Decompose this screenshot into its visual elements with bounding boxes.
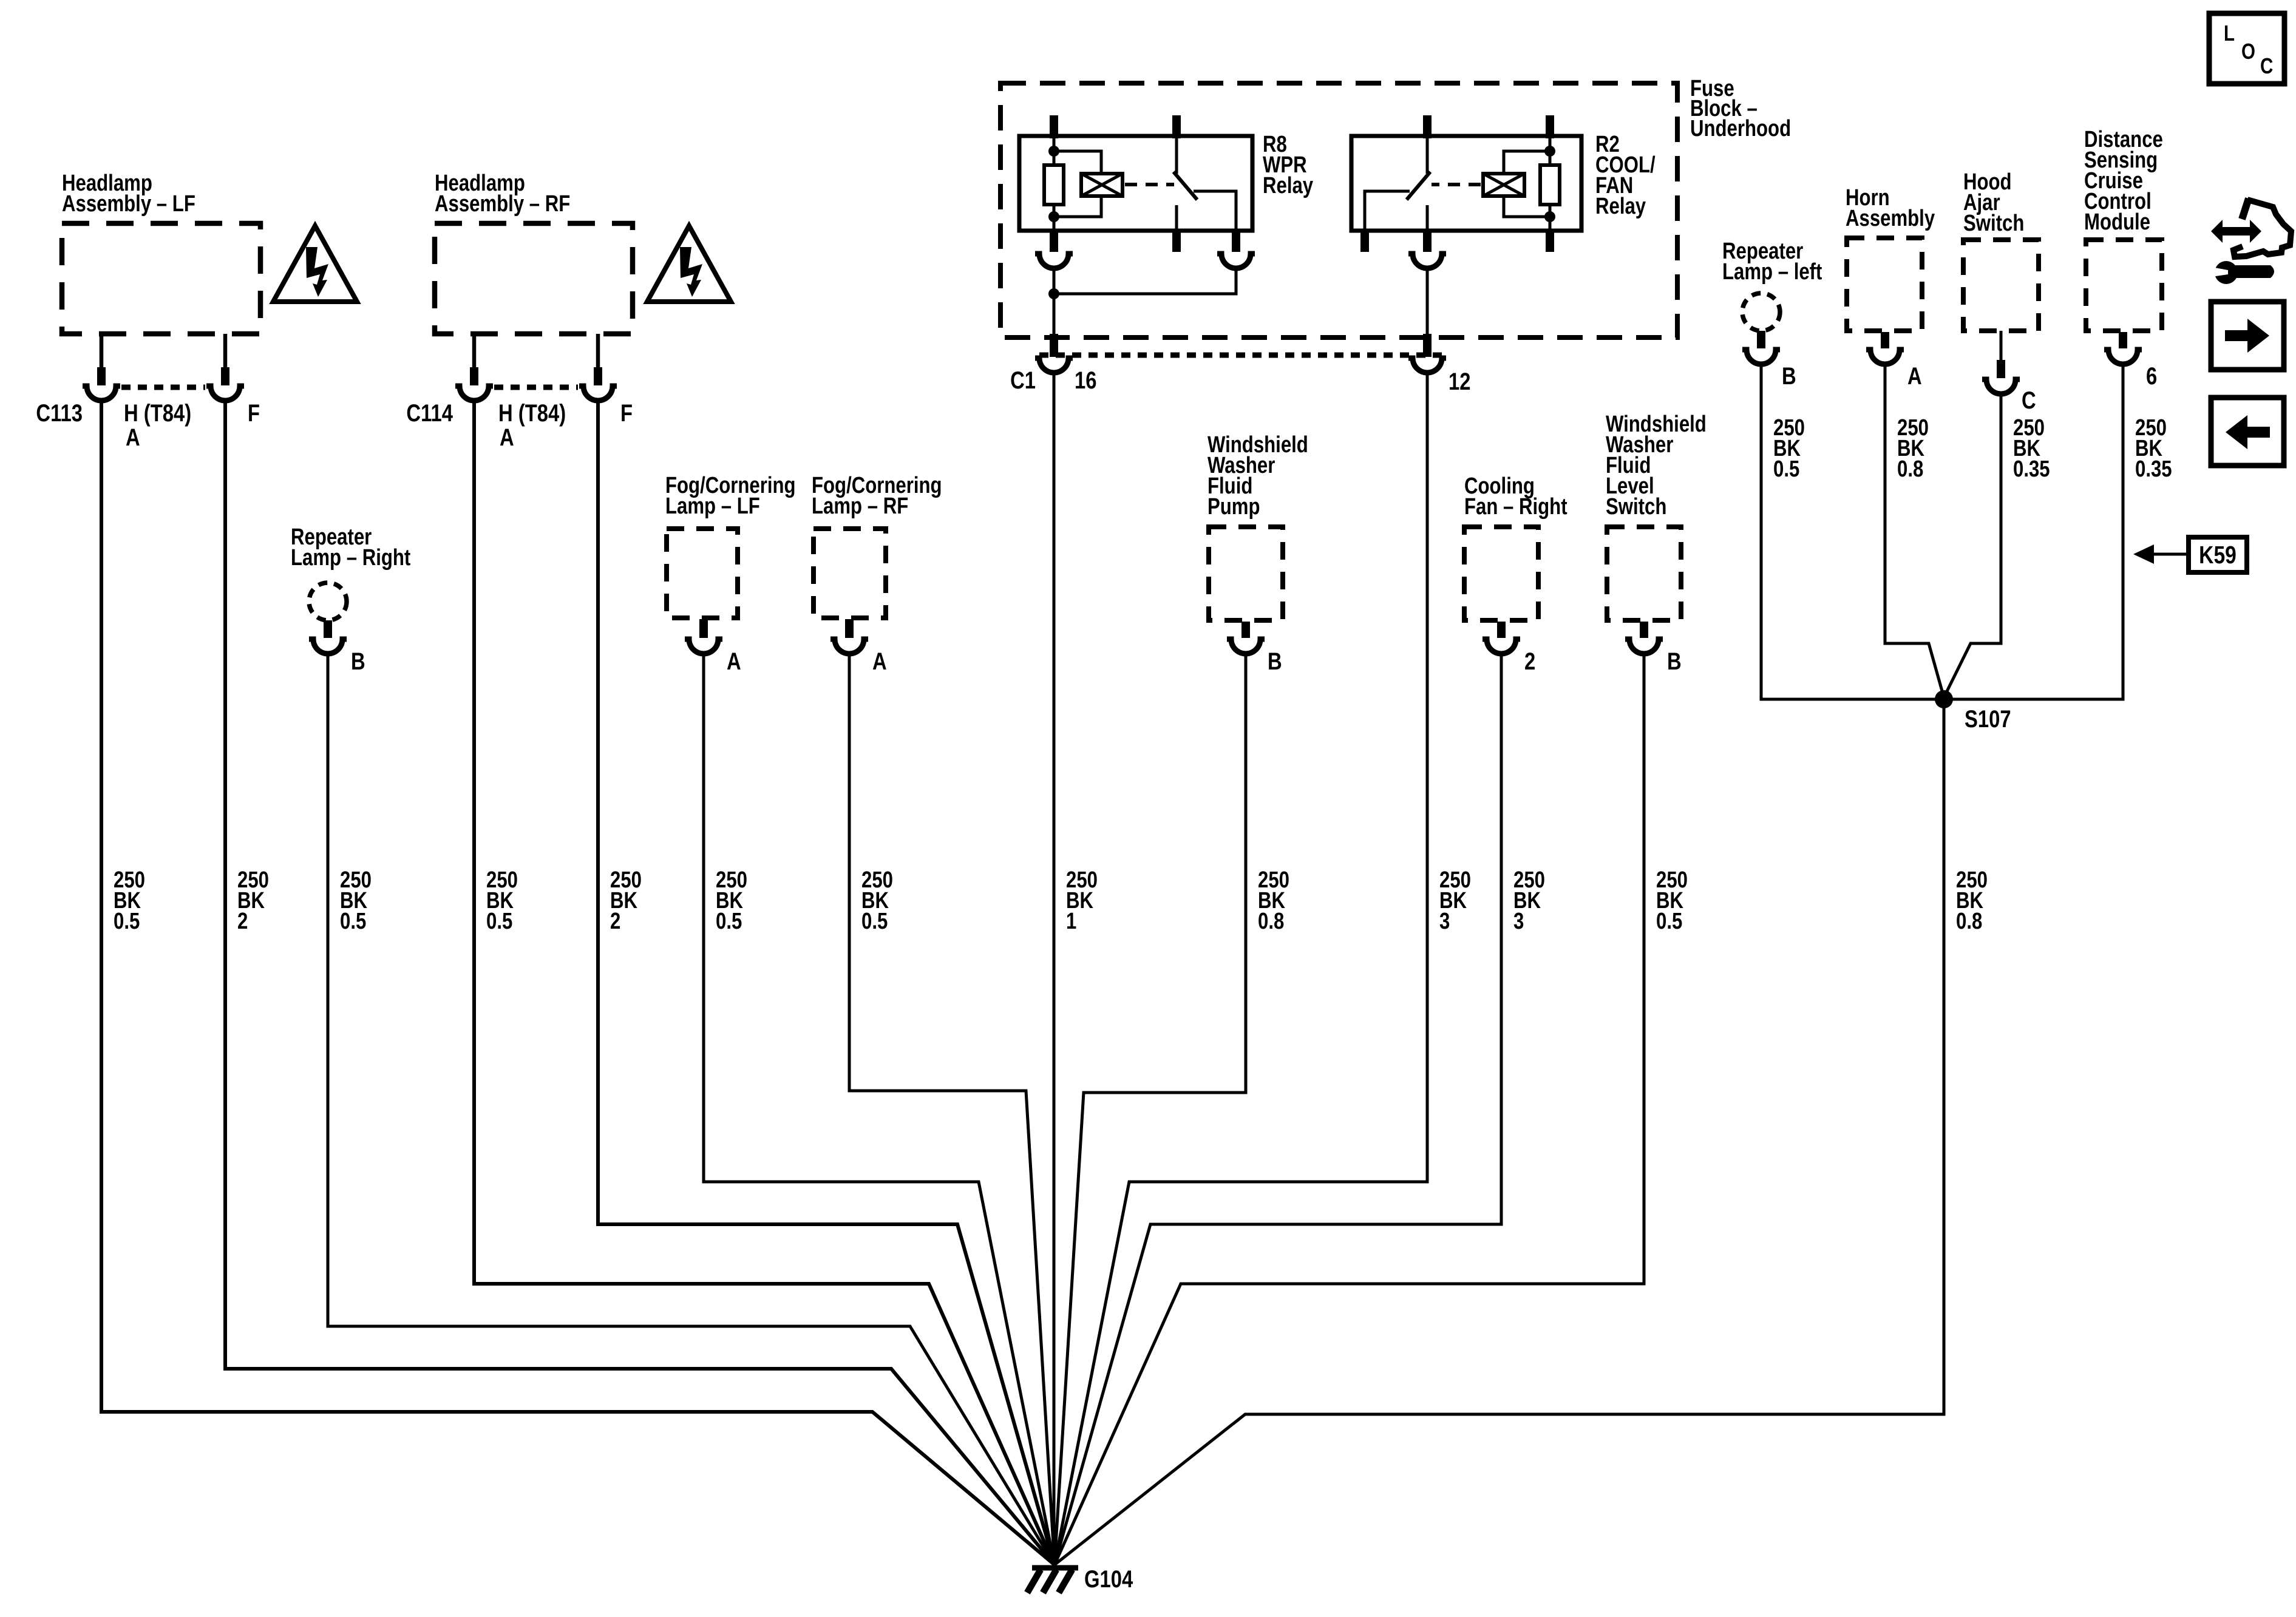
svg-text:K59: K59 [2199,541,2237,569]
wire: fuse block pin 12 to G104 (250 BK 3) [1055,373,1427,1565]
component box: Distance Sensing Cruise Control Module [2084,127,2163,390]
svg-text:B: B [1268,648,1282,675]
R2 output wire to pin 12 [1426,268,1429,335]
relay R8 WPR Relay [1019,115,1255,335]
component box: Cooling Fan - Right [1464,473,1567,675]
fuse block output pin 12 [1408,334,1470,395]
svg-text:O: O [2241,39,2255,63]
svg-text:C113: C113 [36,399,83,427]
R2 bottom pins [1360,231,1369,252]
component box: Hood Ajar Switch [1963,169,2039,414]
wire: headlamp RF pin F to G104 (250 BK 2) [598,401,1055,1565]
hand-with-wrench service icon [2211,198,2291,284]
svg-text:A: A [500,424,514,451]
wire: splice S107 to G104 (250 BK 0.8) [1055,699,1944,1565]
svg-text:A: A [1907,362,1922,390]
wire: fog/cornering lamp LF A to G104 (250 BK 0.5) [704,654,1055,1565]
ground G104 [1027,1565,1133,1593]
component box: Fog/Cornering Lamp - LF [665,473,796,675]
R8 switch contact [1175,136,1178,174]
connector C113 pins (headlamp LF) [83,334,244,401]
relay R2 COOL/FAN Relay [1351,115,1581,335]
component: Repeater Lamp - left (dashed circle) [1722,239,1822,390]
label C114 / H (T84) / A / F [406,399,633,451]
component box: Fog/Cornering Lamp - RF [812,473,942,675]
svg-text:C: C [2022,387,2036,414]
fuse block output pin C1-16 [1010,334,1096,394]
wire: fuse block C1 pin 16 to G104 (250 BK 1) [1053,373,1056,1565]
wire: repeater lamp right B to G104 (250 BK 0.5) [328,654,1055,1565]
connector C114 pins (headlamp RF) [455,334,617,401]
svg-text:F: F [248,399,260,427]
wire: hood ajar switch C to splice S107 [1944,394,2001,697]
svg-text:12: 12 [1449,368,1470,395]
component box: Windshield Washer Fluid Level Switch [1606,412,1707,675]
wire: distance sensing cruise control module 6 to splice S107 [1944,364,2123,699]
LOC reference box (top right) [2209,13,2284,84]
warning triangle (high voltage) for Headlamp LF [273,226,357,302]
svg-text:H (T84): H (T84) [498,399,566,427]
wire: headlamp RF pin A to G104 (250 BK 0.5) [474,401,1055,1565]
svg-text:A: A [727,648,741,675]
svg-text:G104: G104 [1084,1565,1133,1593]
R8 coil parallel branch with coil (box with X) [1054,151,1101,174]
svg-text:C1: C1 [1010,367,1036,394]
R2 mechanical linkage (dashed) [1432,183,1481,186]
svg-text:S107: S107 [1965,705,2011,733]
wire: cooling fan right pin 2 to G104 (250 BK 3) [1055,654,1501,1565]
svg-text:C114: C114 [406,399,453,427]
forward arrow box (right margin) [2211,302,2284,370]
svg-text:2: 2 [1524,648,1535,675]
R2 coil parallel branch with coil (box with X) [1504,151,1550,174]
R8 output wires joining to pin 16 [1053,268,1056,335]
svg-text:H (T84): H (T84) [124,399,191,427]
svg-text:A: A [126,424,140,451]
warning triangle (high voltage) for Headlamp RF [647,226,731,302]
svg-text:C: C [2260,53,2273,78]
component box: Windshield Washer Fluid Pump [1207,432,1308,675]
svg-text:B: B [1667,648,1682,675]
label C113 / H (T84) / A / F [36,399,260,451]
svg-text:L: L [2224,21,2235,45]
svg-text:6: 6 [2146,362,2157,390]
wire: horn assembly A to splice S107 [1885,364,1944,697]
K59 callout box with arrow [2133,537,2247,572]
wire: headlamp LF pin A to G104 (250 BK 0.5) [101,401,1055,1565]
svg-text:16: 16 [1075,367,1096,394]
wire: washer fluid pump B to G104 (250 BK 0.8) [1055,654,1246,1565]
wire: headlamp LF pin F to G104 (250 BK 2) [225,401,1055,1565]
node dots in R8 coil circuit [1048,146,1059,157]
wire: fog/cornering lamp RF A to G104 (250 BK 0.5) [849,654,1055,1565]
wire: washer fluid level switch B to G104 (250 BK 0.5) [1055,654,1644,1565]
node dots in R2 coil circuit [1544,146,1555,157]
back arrow box (right margin) [2211,398,2284,466]
wire: repeater lamp left B to splice S107 [1761,364,1944,699]
component box: Horn Assembly [1846,185,1935,390]
R8 bottom pins [1050,231,1058,252]
svg-text:A: A [872,648,887,675]
splice S107 [1935,690,1953,708]
connector C1 dotted line [1039,353,1445,358]
component: Repeater Lamp - Right (dashed circle) [291,524,411,675]
svg-text:F: F [620,399,633,427]
R8 mechanical linkage (dashed) [1125,183,1174,186]
fuse block - underhood (dashed boundary) [1000,83,1677,337]
svg-text:B: B [351,648,365,675]
svg-text:B: B [1782,362,1796,390]
